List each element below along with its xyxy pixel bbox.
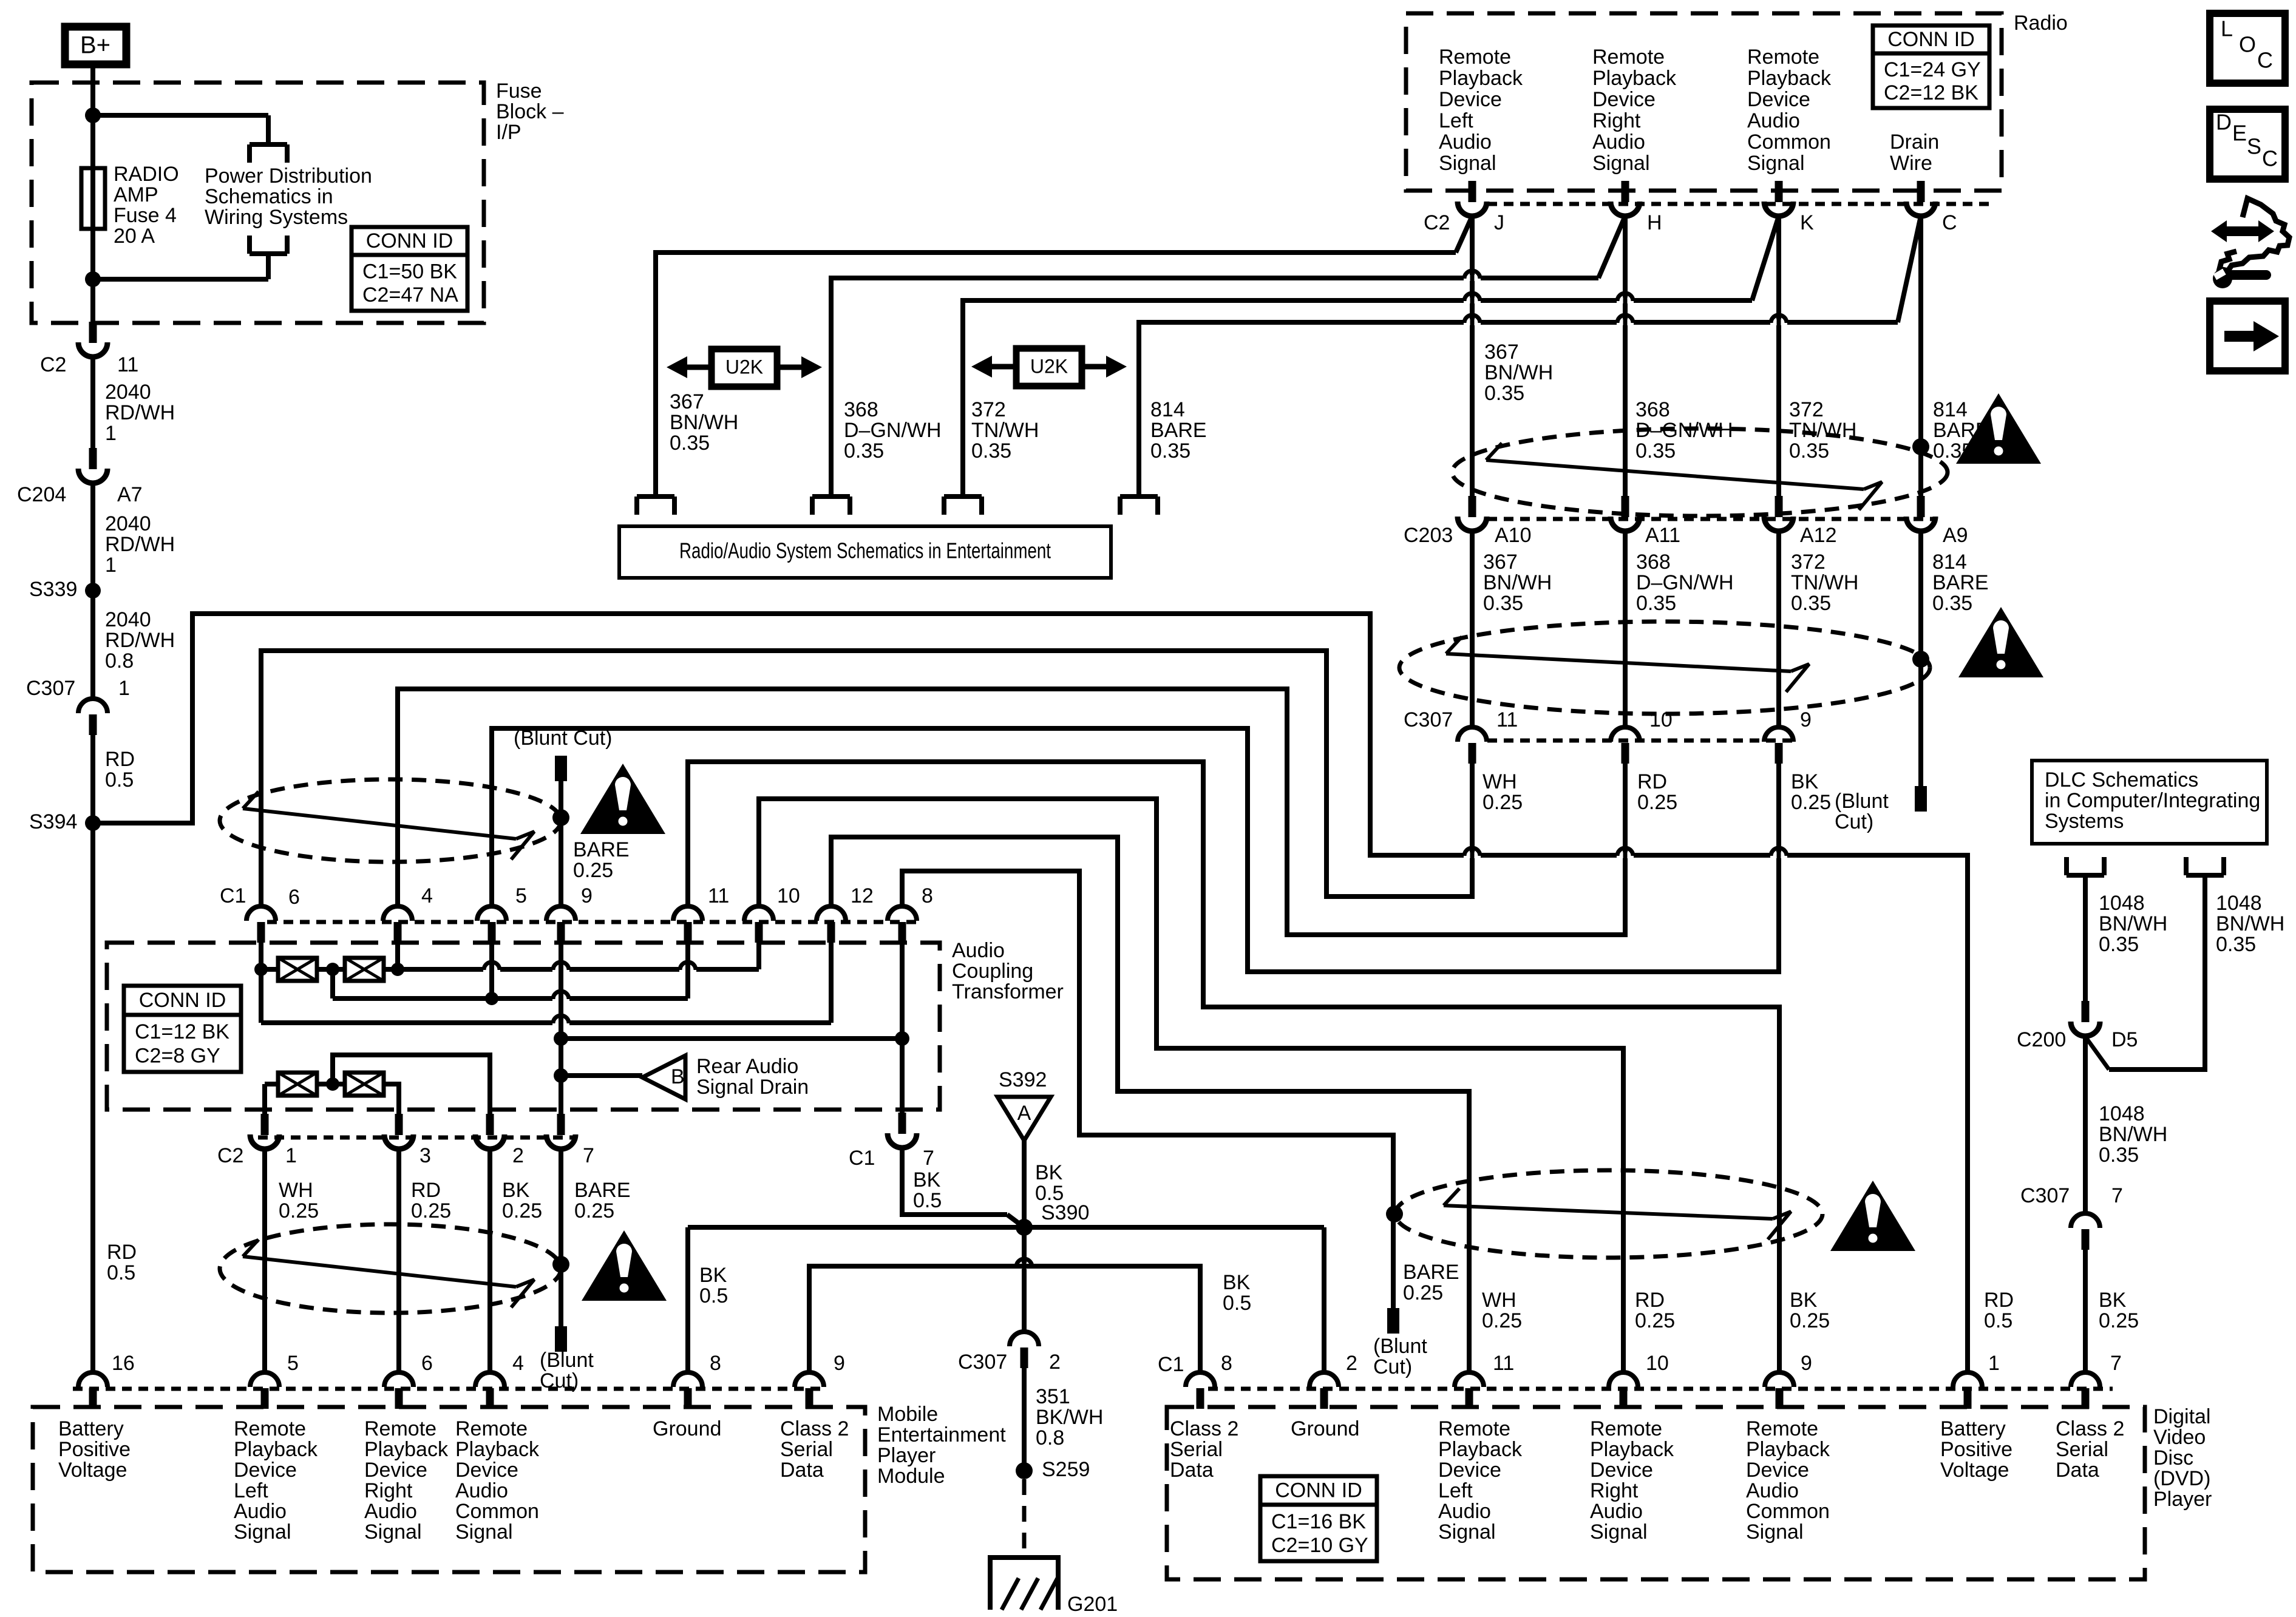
svg-text:C: C	[1942, 211, 1957, 234]
svg-text:0.35: 0.35	[1789, 439, 1829, 463]
svg-text:0.5: 0.5	[699, 1284, 728, 1307]
svg-text:C2: C2	[40, 353, 66, 376]
component Mobile Entertainment Player Module dashed box	[33, 1403, 1006, 1572]
svg-text:9: 9	[834, 1352, 845, 1375]
connector C2 pin 3	[384, 1114, 431, 1167]
svg-text:Coupling: Coupling	[952, 960, 1033, 983]
svg-text:Common: Common	[1746, 1500, 1830, 1523]
svg-text:Transformer: Transformer	[952, 980, 1064, 1003]
svg-text:D–GN/WH: D–GN/WH	[1636, 571, 1734, 594]
svg-text:BARE: BARE	[1150, 419, 1207, 442]
svg-text:C2=10 GY: C2=10 GY	[1271, 1534, 1368, 1557]
label Remote Playback Device Right dvd	[1590, 1417, 1674, 1544]
connector C1 pin 12	[817, 884, 874, 943]
label 367 BN/WH 0.35 u2k	[670, 390, 738, 455]
svg-text:0.35: 0.35	[1791, 592, 1831, 615]
blunt cut stub 814	[1835, 786, 1927, 833]
svg-text:Playback: Playback	[364, 1438, 449, 1461]
off-page bracket 368	[812, 497, 850, 515]
svg-text:BK: BK	[1223, 1271, 1251, 1294]
svg-text:Common: Common	[455, 1500, 539, 1523]
svg-text:0.35: 0.35	[971, 439, 1011, 463]
svg-text:0.25: 0.25	[573, 859, 613, 882]
svg-text:2: 2	[1049, 1351, 1061, 1374]
svg-text:Remote: Remote	[1746, 1417, 1818, 1440]
off-page bracket 814	[1120, 497, 1158, 515]
svg-text:3: 3	[419, 1144, 431, 1167]
svg-text:C2=47 NA: C2=47 NA	[362, 283, 458, 307]
shield ellipse 1	[1452, 429, 1948, 516]
svg-text:Playback: Playback	[1439, 67, 1523, 90]
connector C1 pin 9	[546, 884, 593, 943]
svg-text:BK: BK	[1791, 770, 1819, 793]
svg-text:368: 368	[1636, 551, 1671, 574]
wire WH 0.25 C307-11 to transformer pin 6	[261, 651, 1523, 907]
svg-text:Remote: Remote	[1592, 46, 1665, 69]
wire 368 D-GN/WH C203 to C307	[1625, 532, 1734, 727]
svg-text:CONN ID: CONN ID	[1887, 28, 1975, 51]
svg-text:Systems: Systems	[2045, 810, 2124, 833]
label Drain Wire	[1890, 131, 1939, 175]
svg-text:2040: 2040	[105, 608, 151, 631]
drain junction to pin 8	[554, 1031, 909, 1046]
svg-text:0.25: 0.25	[1483, 791, 1523, 814]
svg-text:Player: Player	[2153, 1488, 2212, 1511]
svg-text:4: 4	[421, 884, 433, 907]
label Ground module	[653, 1417, 721, 1440]
svg-text:368: 368	[1635, 398, 1670, 421]
svg-text:K: K	[1800, 211, 1814, 234]
svg-text:Audio: Audio	[1438, 1500, 1491, 1523]
svg-text:1048: 1048	[2099, 892, 2145, 915]
svg-text:Playback: Playback	[1438, 1438, 1523, 1461]
svg-text:Audio: Audio	[1592, 131, 1645, 154]
connector DVD pin 1	[1953, 1352, 2000, 1409]
icon DESC box	[2210, 109, 2285, 179]
svg-text:8: 8	[710, 1352, 721, 1375]
svg-text:Class 2: Class 2	[780, 1417, 849, 1440]
svg-text:C307: C307	[958, 1351, 1007, 1374]
svg-text:Playback: Playback	[1747, 67, 1832, 90]
svg-text:Playback: Playback	[234, 1438, 318, 1461]
svg-text:C1=12 BK: C1=12 BK	[135, 1020, 229, 1043]
winding box 1	[278, 958, 317, 981]
svg-text:Device: Device	[1439, 88, 1502, 111]
svg-text:(Blunt: (Blunt	[1373, 1335, 1427, 1358]
connector radio pin H	[1611, 181, 1662, 234]
icon wrench	[2213, 269, 2266, 288]
svg-text:BN/WH: BN/WH	[1484, 361, 1553, 384]
svg-text:Cut): Cut)	[1373, 1355, 1412, 1378]
svg-text:Audio: Audio	[952, 939, 1005, 962]
center tap wire to pins 5 11	[333, 940, 688, 1009]
connector C1 pin 7 inline	[849, 1113, 942, 1212]
svg-text:Device: Device	[1590, 1459, 1653, 1482]
svg-text:Playback: Playback	[1746, 1438, 1830, 1461]
label Remote Playback Device Left module	[234, 1417, 318, 1544]
svg-text:7: 7	[2111, 1184, 2123, 1207]
wire BARE 0.25 drain blunt cut	[540, 1150, 631, 1392]
svg-text:Serial: Serial	[780, 1438, 833, 1461]
svg-text:Voltage: Voltage	[1940, 1459, 2009, 1482]
svg-text:0.25: 0.25	[574, 1199, 614, 1222]
label BARE 0.25 pin 9	[573, 838, 630, 882]
svg-text:AMP: AMP	[114, 183, 158, 206]
svg-text:10: 10	[1649, 708, 1673, 731]
svg-text:Schematics in: Schematics in	[205, 185, 333, 208]
svg-text:16: 16	[112, 1352, 135, 1375]
svg-text:(Blunt: (Blunt	[1835, 790, 1889, 813]
svg-text:TN/WH: TN/WH	[1789, 419, 1856, 442]
svg-text:0.25: 0.25	[1791, 791, 1831, 814]
svg-text:0.8: 0.8	[105, 649, 134, 673]
wire 2040 RD/WH 1 lower	[93, 484, 175, 698]
svg-text:372: 372	[1791, 551, 1826, 574]
svg-text:in Computer/Integrating: in Computer/Integrating	[2045, 789, 2260, 812]
wire module ground riser	[688, 1227, 728, 1372]
svg-text:A12: A12	[1800, 524, 1837, 547]
connector module pin 9	[795, 1352, 845, 1409]
label Class 2 Serial Data module	[780, 1417, 849, 1482]
svg-text:Battery: Battery	[58, 1417, 124, 1440]
wire 367 BN/WH from pin J	[656, 216, 1553, 497]
svg-text:Right: Right	[364, 1479, 413, 1502]
svg-text:BK: BK	[502, 1179, 530, 1202]
svg-text:BN/WH: BN/WH	[2099, 912, 2167, 935]
reference triangle B Rear Audio Signal Drain	[642, 1055, 809, 1099]
svg-text:11: 11	[1496, 708, 1518, 731]
svg-text:Digital: Digital	[2153, 1405, 2210, 1428]
svg-text:G201: G201	[1067, 1593, 1118, 1616]
connector row C2 transformer	[217, 1137, 577, 1167]
svg-text:Voltage: Voltage	[58, 1459, 127, 1482]
svg-text:Remote: Remote	[234, 1417, 306, 1440]
svg-text:Ground: Ground	[1291, 1417, 1359, 1440]
label RD 0.5 battery	[1984, 1289, 2014, 1332]
svg-text:BK: BK	[1035, 1161, 1063, 1184]
svg-text:0.5: 0.5	[1223, 1292, 1251, 1315]
power symbol B+	[65, 27, 126, 64]
drain wire pin 9 down	[559, 940, 563, 1114]
connector C1 pin 10	[744, 884, 800, 943]
connector C1 pin 11	[673, 884, 729, 943]
svg-text:2040: 2040	[105, 381, 151, 404]
svg-text:E: E	[2232, 121, 2247, 146]
connector DVD pin 7	[2071, 1352, 2122, 1409]
wire 1048 BN/WH to C307	[2085, 1037, 2167, 1214]
wire 368 D-GN/WH from pin H	[831, 216, 1733, 497]
svg-text:S390: S390	[1041, 1201, 1089, 1224]
svg-text:A7: A7	[117, 483, 143, 506]
svg-text:1048: 1048	[2216, 892, 2262, 915]
svg-text:6: 6	[421, 1352, 433, 1375]
svg-text:CONN ID: CONN ID	[1275, 1479, 1362, 1502]
wire BK 0.25 C307-9 to transformer pin 5	[492, 728, 1831, 972]
svg-text:WH: WH	[1482, 1289, 1517, 1312]
svg-text:BARE: BARE	[573, 838, 630, 861]
shield ellipse 4	[220, 1224, 561, 1313]
connector row C203	[1404, 519, 1937, 547]
label Remote Playback Device Common module	[455, 1417, 540, 1544]
svg-text:DLC Schematics: DLC Schematics	[2045, 768, 2198, 792]
svg-text:Fuse: Fuse	[496, 80, 542, 103]
warning triangle 3	[580, 764, 665, 834]
label Fuse Block I/P	[496, 80, 564, 144]
svg-text:Serial: Serial	[1170, 1438, 1223, 1461]
svg-text:10: 10	[1646, 1352, 1669, 1375]
svg-text:WH: WH	[279, 1179, 313, 1202]
splice S394	[29, 810, 101, 833]
svg-text:Device: Device	[234, 1459, 297, 1482]
svg-text:Positive: Positive	[1940, 1438, 2012, 1461]
svg-text:Signal: Signal	[1590, 1520, 1648, 1544]
connector radio pin J	[1458, 181, 1504, 234]
wire S392 to S390	[1024, 1141, 1064, 1227]
svg-text:0.25: 0.25	[279, 1199, 319, 1222]
svg-text:RD: RD	[1984, 1289, 2014, 1312]
dashed wire to ground	[1022, 1479, 1027, 1558]
svg-text:Class 2: Class 2	[2056, 1417, 2124, 1440]
svg-text:0.25: 0.25	[1790, 1309, 1830, 1332]
svg-text:H: H	[1647, 211, 1662, 234]
winding secondary box 2	[345, 1073, 384, 1096]
connector C307 pin 1	[26, 677, 130, 735]
svg-text:0.25: 0.25	[411, 1199, 451, 1222]
wire 814 BARE from pin C	[1139, 216, 1989, 497]
svg-text:Serial: Serial	[2056, 1438, 2108, 1461]
connector DVD pin 2	[1309, 1352, 1357, 1409]
svg-text:Left: Left	[234, 1479, 268, 1502]
label Remote Playback Device Left dvd	[1438, 1417, 1523, 1544]
svg-text:1048: 1048	[2099, 1102, 2145, 1125]
svg-text:0.8: 0.8	[1036, 1426, 1064, 1449]
svg-text:Audio: Audio	[364, 1500, 417, 1523]
svg-text:8: 8	[922, 884, 933, 907]
svg-text:Mobile: Mobile	[877, 1403, 938, 1426]
svg-text:Device: Device	[364, 1459, 427, 1482]
svg-text:2: 2	[512, 1144, 524, 1167]
svg-text:Battery: Battery	[1940, 1417, 2006, 1440]
svg-text:C: C	[2262, 146, 2278, 171]
icon right arrow box	[2210, 301, 2285, 371]
svg-text:Device: Device	[1747, 88, 1810, 111]
svg-text:8: 8	[1221, 1352, 1232, 1375]
svg-text:C307: C307	[26, 677, 75, 700]
svg-text:Block –: Block –	[496, 100, 564, 123]
svg-text:RD: RD	[1635, 1289, 1665, 1312]
connector C1 pin 5	[477, 884, 527, 943]
svg-text:1: 1	[105, 422, 117, 445]
svg-text:7: 7	[2110, 1352, 2122, 1375]
svg-text:BK: BK	[913, 1168, 941, 1192]
svg-text:367: 367	[1484, 341, 1519, 364]
svg-text:RD: RD	[107, 1241, 137, 1264]
label Remote Playback Device Right Audio Signal	[1592, 46, 1677, 175]
svg-text:1: 1	[118, 677, 130, 700]
svg-text:Module: Module	[877, 1465, 945, 1488]
svg-text:S259: S259	[1042, 1458, 1090, 1481]
svg-text:Positive: Positive	[58, 1438, 131, 1461]
drain junction dot 4	[552, 1256, 569, 1273]
svg-text:10: 10	[777, 884, 800, 907]
connector C2 pin 2	[475, 1114, 524, 1167]
svg-text:9: 9	[1801, 1352, 1812, 1375]
svg-text:B: B	[671, 1065, 685, 1088]
svg-text:Audio: Audio	[455, 1479, 508, 1502]
svg-text:S339: S339	[29, 578, 77, 601]
winding row wire and taps	[254, 940, 759, 980]
svg-text:0.35: 0.35	[1635, 439, 1676, 463]
wire pin 8 down to C1-7	[900, 940, 905, 1114]
connector C2 pin 11	[40, 322, 138, 376]
label Battery Positive Voltage dvd	[1940, 1417, 2012, 1482]
svg-text:351: 351	[1036, 1385, 1070, 1408]
fuse F4 RADIO AMP	[81, 168, 105, 229]
connector row C1 transformer	[220, 884, 923, 922]
off-page bracket DLC left	[2067, 857, 2104, 875]
svg-text:0.25: 0.25	[502, 1199, 542, 1222]
svg-text:0.35: 0.35	[2216, 933, 2256, 956]
svg-text:814: 814	[1932, 551, 1967, 574]
svg-text:Audio: Audio	[1439, 131, 1492, 154]
svg-text:C204: C204	[17, 483, 66, 506]
svg-text:0.35: 0.35	[1932, 592, 1972, 615]
icon double arrow jagged	[2211, 198, 2289, 271]
svg-text:Left: Left	[1438, 1479, 1473, 1502]
conn id table C1=12 BK	[124, 986, 241, 1072]
svg-text:372: 372	[1789, 398, 1824, 421]
svg-text:J: J	[1494, 211, 1504, 234]
svg-text:C: C	[2257, 48, 2273, 73]
svg-text:367: 367	[1483, 551, 1518, 574]
svg-text:(Blunt Cut): (Blunt Cut)	[514, 727, 613, 750]
svg-text:Radio/Audio System Schematics: Radio/Audio System Schematics in Enterta…	[679, 538, 1051, 563]
svg-text:Remote: Remote	[455, 1417, 528, 1440]
svg-text:RD: RD	[411, 1179, 441, 1202]
svg-text:Playback: Playback	[455, 1438, 540, 1461]
svg-text:0.35: 0.35	[670, 432, 710, 455]
svg-text:A: A	[1017, 1102, 1031, 1125]
connector radio pin K	[1764, 181, 1814, 234]
svg-text:12: 12	[851, 884, 874, 907]
wire pin 6 to pin 12	[261, 940, 831, 1033]
wire 1048 BN/WH left	[2085, 875, 2167, 1002]
label RD 0.25 dvd	[1635, 1289, 1675, 1332]
svg-text:0.5: 0.5	[105, 768, 134, 792]
splice S390	[1016, 1201, 1089, 1236]
svg-text:A11: A11	[1645, 524, 1680, 547]
svg-text:0.35: 0.35	[1484, 382, 1524, 405]
label Power Distribution Schematics	[205, 164, 372, 229]
svg-text:BARE: BARE	[1403, 1261, 1459, 1284]
component Audio Coupling Transformer dashed box	[107, 939, 1064, 1110]
hops battery wire over WH RD BK	[1464, 845, 1787, 866]
svg-text:Cut): Cut)	[1835, 810, 1873, 833]
svg-text:Class 2: Class 2	[1170, 1417, 1238, 1440]
connector C307 pin 9	[1764, 708, 1812, 764]
wire battery branch to DVD	[93, 614, 1968, 1372]
svg-text:Signal: Signal	[455, 1520, 513, 1544]
wire RD 0.25 C307-10 to transformer pin 4	[398, 689, 1677, 935]
wire S390 down to C307-2	[1022, 1227, 1027, 1332]
svg-text:7: 7	[583, 1144, 594, 1167]
svg-text:Data: Data	[780, 1459, 824, 1482]
svg-text:0.35: 0.35	[2099, 933, 2139, 956]
svg-text:1: 1	[285, 1144, 297, 1167]
svg-text:Entertainment: Entertainment	[877, 1423, 1006, 1446]
svg-text:Wiring Systems: Wiring Systems	[205, 206, 348, 229]
wire ground bus S390	[688, 1227, 1324, 1372]
connector C2 pin 7	[546, 1114, 594, 1167]
icon LOC box	[2210, 13, 2285, 83]
shield ellipse 2	[1399, 622, 1930, 714]
blunt cut stub above pin 9	[514, 727, 613, 907]
svg-text:Signal: Signal	[1747, 152, 1805, 175]
svg-text:O: O	[2239, 32, 2256, 57]
label Battery Positive Voltage module	[58, 1417, 131, 1482]
warning triangle 5	[1830, 1181, 1915, 1251]
svg-text:BK: BK	[1790, 1289, 1818, 1312]
svg-text:B+: B+	[80, 32, 110, 59]
svg-text:Audio: Audio	[1590, 1500, 1643, 1523]
connector C307 pin 11	[1458, 708, 1518, 764]
svg-text:5: 5	[287, 1352, 299, 1375]
option symbol U2K 2	[971, 348, 1127, 386]
svg-text:(DVD): (DVD)	[2153, 1467, 2210, 1490]
svg-text:7: 7	[923, 1147, 934, 1170]
svg-text:RADIO: RADIO	[114, 163, 179, 186]
warning triangle 4	[582, 1230, 667, 1301]
svg-text:Right: Right	[1592, 109, 1641, 132]
label BK 0.5 dvd ground	[1223, 1271, 1251, 1315]
svg-text:Signal: Signal	[1746, 1520, 1804, 1544]
svg-text:Remote: Remote	[1747, 46, 1819, 69]
off-page bracket 372	[944, 497, 982, 515]
svg-text:Playback: Playback	[1592, 67, 1677, 90]
wire pin 8 riser to shield drain	[902, 871, 1393, 1308]
svg-text:BK: BK	[699, 1264, 727, 1287]
svg-text:RD/WH: RD/WH	[105, 533, 175, 556]
svg-text:CONN ID: CONN ID	[139, 989, 226, 1012]
svg-text:C1: C1	[220, 884, 246, 907]
wire 372 TN/WH C203 to C307	[1779, 532, 1858, 727]
svg-text:C307: C307	[1404, 708, 1453, 731]
svg-text:Data: Data	[2056, 1459, 2099, 1482]
drain junction dot 2	[1912, 651, 1929, 668]
svg-text:RD: RD	[105, 748, 135, 771]
warning triangle 2	[1958, 607, 2043, 677]
svg-text:9: 9	[581, 884, 593, 907]
svg-text:0.35: 0.35	[1483, 592, 1523, 615]
svg-text:U2K: U2K	[1030, 355, 1068, 377]
svg-text:Device: Device	[1592, 88, 1656, 111]
component DVD Player dashed box	[1167, 1405, 2212, 1579]
winding secondary wires	[265, 1077, 399, 1114]
svg-text:C2=12 BK: C2=12 BK	[1884, 81, 1978, 104]
node junction bottom	[85, 254, 268, 287]
connector module pin 4	[475, 1352, 524, 1409]
svg-text:L: L	[2221, 16, 2233, 41]
svg-text:814: 814	[1933, 398, 1968, 421]
wire 351 BK/WH 0.8	[1024, 1366, 1103, 1463]
ground symbol G201	[988, 1558, 1118, 1616]
svg-text:D–GN/WH: D–GN/WH	[844, 419, 942, 442]
label Remote Playback Device Right module	[364, 1417, 449, 1544]
svg-text:C2=8 GY: C2=8 GY	[135, 1045, 220, 1068]
svg-text:TN/WH: TN/WH	[971, 419, 1039, 442]
label BK 0.25 dvd	[1790, 1289, 1830, 1332]
svg-text:Audio: Audio	[234, 1500, 287, 1523]
